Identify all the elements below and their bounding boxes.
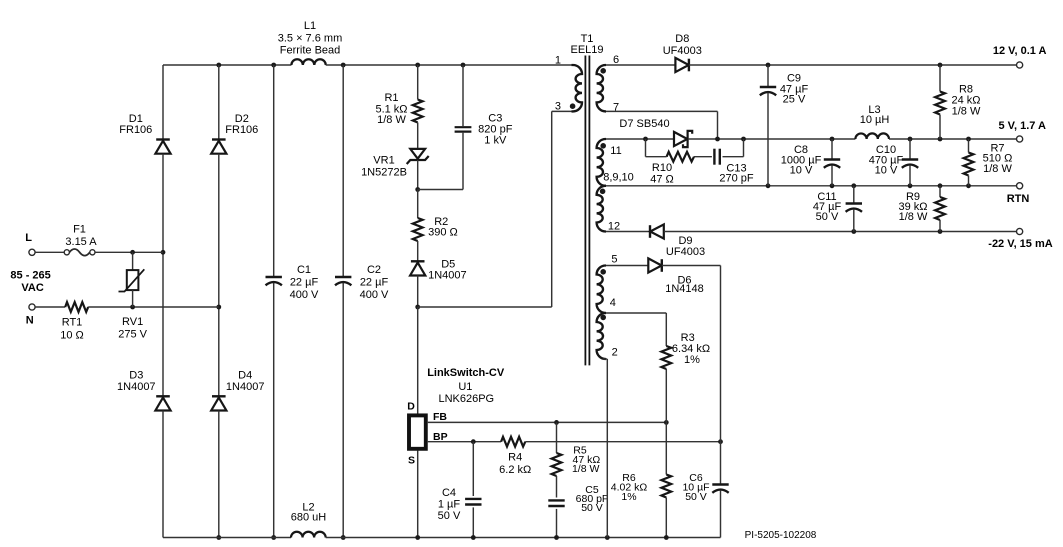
wire FB row bbox=[428, 421, 667, 423]
svg-text:D: D bbox=[407, 401, 415, 413]
wire R5 to C5 bbox=[556, 476, 558, 498]
secondary phase dot pin 6 bbox=[600, 68, 606, 74]
wire top rail right segment to transformer pin 1 bbox=[326, 64, 572, 66]
wire C1 column upper bbox=[273, 65, 275, 277]
svg-text:22 µF: 22 µF bbox=[290, 277, 319, 289]
capacitor C4 1uF 50V bbox=[465, 499, 481, 505]
label T1 bbox=[570, 33, 603, 56]
wire C6 bottom lead bbox=[720, 490, 722, 537]
svg-text:1N4007: 1N4007 bbox=[428, 270, 467, 282]
svg-text:6.2 kΩ: 6.2 kΩ bbox=[499, 464, 531, 476]
pin label 1 bbox=[555, 54, 561, 66]
svg-text:RTN: RTN bbox=[1007, 193, 1030, 205]
label U1 bbox=[458, 381, 472, 393]
transformer secondary winding pins 5-4 bbox=[597, 266, 606, 314]
node junction RTN / C11 top bbox=[851, 183, 856, 188]
label C6 bbox=[682, 472, 709, 503]
svg-text:3.15 A: 3.15 A bbox=[65, 236, 97, 248]
capacitor C10 470uF 10V bbox=[902, 160, 918, 168]
node junction bottom rail / C2 column bbox=[341, 535, 346, 540]
svg-text:FR106: FR106 bbox=[119, 124, 152, 136]
IC U1 LNK626PG LinkSwitch-CV body bbox=[409, 415, 426, 448]
svg-text:UF4003: UF4003 bbox=[666, 246, 705, 258]
svg-text:270 pF: 270 pF bbox=[719, 173, 754, 185]
capacitor C5 680pF 50V bbox=[548, 500, 564, 506]
label 5V output bbox=[999, 120, 1047, 132]
wire C1 column lower bbox=[273, 283, 275, 538]
inductor L3 10uH bbox=[855, 133, 889, 139]
terminal N input circle bbox=[29, 304, 35, 310]
wire left column lower (D3 to bottom rail) bbox=[162, 411, 164, 538]
label RT1 bbox=[60, 316, 84, 341]
wire C3 top lead bbox=[462, 65, 464, 126]
wire R2 to D5 bbox=[417, 241, 419, 261]
svg-text:2: 2 bbox=[612, 347, 618, 359]
wire drain node down to U1 drain bbox=[417, 307, 419, 414]
svg-text:U1: U1 bbox=[458, 381, 472, 393]
wire R6 top lead bbox=[665, 422, 667, 474]
label 8,9,10 bbox=[603, 172, 634, 184]
node junction L input / left column bbox=[161, 250, 166, 255]
node junction N row / RV1 bbox=[130, 305, 135, 310]
diode D5 1N4007 bbox=[410, 261, 425, 275]
transformer secondary winding pins 11-8,9,10 bbox=[597, 139, 606, 186]
svg-text:50 V: 50 V bbox=[581, 502, 603, 514]
transformer secondary winding pins 6-7 bbox=[597, 65, 606, 111]
wire top rail left segment (L1 input side) bbox=[163, 64, 291, 66]
wire R6 bottom lead bbox=[665, 498, 667, 538]
wire BP row right of R4 bbox=[525, 441, 720, 443]
node junction 5V rail / pin7 wire bbox=[715, 137, 720, 142]
svg-text:1N4007: 1N4007 bbox=[226, 381, 265, 393]
wire 5V rail pin 11 to snubber node bbox=[606, 138, 674, 140]
wire pin 7 down to 5V rail bbox=[717, 111, 719, 139]
wire C4 bottom lead bbox=[472, 507, 474, 537]
diode D4 1N4007 bbox=[211, 396, 226, 410]
wire RTN rail bbox=[606, 185, 1017, 187]
wire pin 2 column bbox=[603, 359, 607, 538]
node junction top rail / C2 column bbox=[341, 63, 346, 68]
thermistor RT1 10 ohm bbox=[65, 302, 88, 312]
wire RT1 to D2 column bbox=[88, 306, 219, 308]
diode D8 UF4003 bbox=[675, 58, 689, 72]
node junction 5V rail / C10 bbox=[908, 137, 913, 142]
svg-text:12: 12 bbox=[608, 220, 620, 232]
wire C9 top lead bbox=[767, 65, 769, 87]
svg-text:1 µF: 1 µF bbox=[438, 498, 461, 510]
wire C13 riser up to 5V rail bbox=[743, 139, 745, 157]
node junction RTN / R9 top bbox=[938, 183, 943, 188]
svg-text:680 uH: 680 uH bbox=[291, 511, 327, 523]
wire D5 to drain node bbox=[417, 276, 419, 308]
label R6 bbox=[611, 472, 648, 503]
pin label S bbox=[408, 454, 415, 466]
svg-text:EEL19: EEL19 bbox=[570, 44, 603, 56]
svg-text:D3: D3 bbox=[129, 369, 143, 381]
svg-text:S: S bbox=[408, 454, 415, 466]
wire R3 top lead bbox=[665, 313, 667, 346]
wire N to RT1 bbox=[35, 306, 65, 308]
transformer secondary winding pins 8,9,10-12 bbox=[597, 186, 606, 232]
node junction bottom rail / C4 bbox=[471, 535, 476, 540]
wire 12V rail D8 to terminal bbox=[689, 64, 1017, 66]
svg-text:10 V: 10 V bbox=[875, 164, 898, 176]
wire left column upper (top rail to D1) bbox=[162, 65, 164, 140]
resistor R6 4.02k bbox=[661, 475, 671, 498]
svg-text:12 V, 0.1 A: 12 V, 0.1 A bbox=[993, 45, 1047, 57]
wire C5 bottom lead bbox=[556, 509, 558, 538]
svg-text:1/8 W: 1/8 W bbox=[952, 106, 981, 118]
label VR1 bbox=[361, 154, 407, 178]
capacitor C8 1000uF 10V bbox=[824, 160, 840, 168]
node junction L row / RV1 bbox=[130, 250, 135, 255]
svg-text:3.5 × 7.6 mm: 3.5 × 7.6 mm bbox=[278, 33, 343, 45]
terminal L input circle bbox=[29, 249, 35, 255]
wire BP row left of R4 bbox=[428, 441, 501, 443]
resistor R7 510 ohm bbox=[964, 153, 974, 176]
svg-text:FB: FB bbox=[433, 411, 447, 423]
resistor R5 47k bbox=[552, 453, 562, 476]
pin label 4 bbox=[610, 297, 616, 309]
node junction -22V rail / C11 bottom bbox=[851, 229, 856, 234]
svg-text:Ferrite Bead: Ferrite Bead bbox=[280, 44, 341, 56]
svg-text:VR1: VR1 bbox=[373, 154, 394, 166]
wire R7 top lead bbox=[968, 139, 970, 153]
wire snubber branch down bbox=[645, 139, 647, 157]
wire C2 column lower bbox=[342, 283, 344, 538]
resistor R10 47 ohm bbox=[667, 152, 694, 162]
wire snubber to R10 bbox=[646, 156, 667, 158]
label D5 bbox=[428, 259, 467, 282]
svg-text:10 V: 10 V bbox=[790, 164, 813, 176]
label R7 bbox=[983, 143, 1013, 175]
wire bottom rail left segment bbox=[163, 537, 291, 539]
pin label 12 bbox=[608, 220, 620, 232]
label R9 bbox=[898, 191, 927, 223]
node junction BP / C4 bbox=[471, 439, 476, 444]
node junction top rail / R1 clamp column bbox=[415, 63, 420, 68]
wire drain link horizontal bbox=[418, 306, 552, 308]
wire R9 bottom lead bbox=[939, 220, 941, 232]
svg-text:6.34 kΩ: 6.34 kΩ bbox=[672, 343, 710, 355]
svg-text:PI-5205-102208: PI-5205-102208 bbox=[745, 530, 817, 541]
secondary phase dot pin 11 bbox=[600, 143, 606, 149]
svg-text:47 Ω: 47 Ω bbox=[650, 174, 674, 186]
node junction 5V rail / C8 bbox=[830, 137, 835, 142]
capacitor C9 47uF 25V bbox=[760, 87, 776, 95]
wire C3 to clamp node bbox=[418, 189, 463, 191]
svg-text:L1: L1 bbox=[304, 20, 316, 32]
diode D1 FR106 bbox=[155, 140, 170, 154]
svg-text:R10: R10 bbox=[652, 162, 672, 174]
svg-text:C2: C2 bbox=[367, 264, 381, 276]
wire L to fuse bbox=[35, 251, 64, 253]
node junction top rail / D2 column bbox=[216, 63, 221, 68]
wire R10 to C13 bbox=[694, 156, 712, 158]
svg-text:VAC: VAC bbox=[21, 282, 43, 294]
label L bbox=[25, 232, 32, 244]
label F1 bbox=[65, 224, 97, 249]
label D6 bbox=[665, 275, 704, 296]
resistor R2 390 bbox=[413, 218, 423, 241]
label C5 bbox=[576, 484, 609, 514]
svg-text:5 V, 1.7 A: 5 V, 1.7 A bbox=[999, 120, 1047, 132]
wire D2 column middle (D2 to D4) bbox=[218, 154, 220, 397]
transformer T1 core bbox=[585, 56, 589, 366]
wire R3 bottom lead to FB bbox=[665, 369, 667, 422]
label RTN output bbox=[1007, 193, 1030, 205]
capacitor C1 22uF 400V bbox=[266, 277, 282, 285]
wire pin 5 to D6 bbox=[606, 265, 648, 267]
svg-text:11: 11 bbox=[610, 145, 621, 157]
label C11 bbox=[813, 191, 842, 223]
svg-text:1: 1 bbox=[555, 54, 561, 66]
node junction 5V rail / R7 top bbox=[966, 137, 971, 142]
transformer secondary winding pins 4-2 bbox=[597, 313, 606, 359]
label D1 bbox=[119, 113, 152, 136]
svg-text:C4: C4 bbox=[442, 487, 456, 499]
pin label 6 bbox=[613, 54, 619, 66]
node junction top rail / C1 column bbox=[271, 63, 276, 68]
svg-text:N: N bbox=[26, 315, 34, 327]
node junction bottom rail / C5 bbox=[554, 535, 559, 540]
svg-text:3: 3 bbox=[555, 101, 561, 113]
resistor R4 6.2k bbox=[501, 437, 525, 447]
svg-text:D7 SB540: D7 SB540 bbox=[619, 118, 669, 130]
node junction RTN / C9 bottom bbox=[766, 183, 771, 188]
svg-text:F1: F1 bbox=[73, 224, 86, 236]
svg-text:RV1: RV1 bbox=[122, 316, 143, 328]
wire D2 column lower (D4 to bottom rail) bbox=[218, 411, 220, 538]
label R1 bbox=[375, 92, 407, 126]
svg-text:D4: D4 bbox=[238, 369, 252, 381]
svg-text:R4: R4 bbox=[508, 452, 522, 464]
svg-text:10 µH: 10 µH bbox=[860, 114, 890, 126]
label D2 bbox=[225, 113, 258, 136]
capacitor C11 47uF 50V bbox=[846, 204, 862, 212]
svg-text:50 V: 50 V bbox=[816, 211, 839, 223]
node junction BP row / D6-C6 column bbox=[718, 439, 723, 444]
svg-text:400 V: 400 V bbox=[290, 289, 319, 301]
node junction RTN / R7 bottom bbox=[966, 183, 971, 188]
svg-text:1N5272B: 1N5272B bbox=[361, 166, 407, 178]
wire C9 bottom lead to RTN bbox=[767, 93, 769, 186]
wire C11 top lead bbox=[853, 186, 855, 204]
terminal RTN output bbox=[1017, 183, 1023, 189]
label D8 bbox=[663, 33, 702, 57]
svg-text:LNK626PG: LNK626PG bbox=[438, 393, 494, 405]
label D4 bbox=[226, 369, 265, 393]
wire C10 top lead bbox=[909, 139, 911, 160]
wire 5V rail L3 to terminal bbox=[889, 138, 1017, 140]
svg-text:400 V: 400 V bbox=[360, 289, 389, 301]
wire C13 to riser bbox=[723, 156, 744, 158]
svg-text:-22 V, 15 mA: -22 V, 15 mA bbox=[988, 238, 1052, 250]
wire fuse to left column bbox=[95, 251, 163, 253]
capacitor C6 10uF 50V bbox=[712, 485, 728, 493]
label 85-265 VAC bbox=[10, 269, 50, 294]
resistor R1 5.1k bbox=[413, 100, 423, 123]
capacitor C3 820pF 1kV bbox=[455, 127, 472, 131]
svg-text:1 kV: 1 kV bbox=[484, 134, 507, 146]
pin label 11 bbox=[610, 145, 621, 157]
svg-text:5: 5 bbox=[611, 254, 617, 266]
svg-text:D9: D9 bbox=[678, 235, 692, 247]
wire bias column BP to C6 bbox=[720, 442, 722, 485]
wire left column middle (D1 to D3) bbox=[162, 154, 164, 397]
node junction 12V rail / R8 bbox=[938, 63, 943, 68]
pin label FB bbox=[433, 411, 447, 423]
wire C10 bottom lead bbox=[909, 165, 911, 186]
diode D6 1N4148 bbox=[648, 258, 662, 272]
svg-text:4: 4 bbox=[610, 297, 616, 309]
label D9 bbox=[666, 235, 705, 258]
label LNK626PG bbox=[438, 393, 494, 405]
svg-text:50 V: 50 V bbox=[685, 491, 707, 503]
varistor RV1 275V bbox=[119, 252, 145, 307]
resistor R8 24k bbox=[935, 92, 945, 115]
wire C8 top lead bbox=[831, 139, 833, 160]
svg-text:1/8 W: 1/8 W bbox=[377, 114, 406, 126]
svg-text:50 V: 50 V bbox=[438, 510, 461, 522]
node junction bottom rail / R6 bbox=[664, 535, 669, 540]
label -22V output bbox=[988, 238, 1052, 250]
wire U1 source to bottom rail bbox=[417, 451, 419, 538]
pin label BP bbox=[433, 431, 448, 443]
label 12V output bbox=[993, 45, 1047, 57]
node junction bottom rail / C1 column bbox=[271, 535, 276, 540]
label D7 SB540 bbox=[619, 118, 669, 130]
svg-text:275 V: 275 V bbox=[118, 329, 147, 341]
schottky diode D7 SB540 bbox=[674, 131, 692, 147]
svg-text:25 V: 25 V bbox=[783, 94, 806, 106]
resistor R9 39k bbox=[935, 197, 945, 220]
wire pin 4 to R3 column bbox=[606, 312, 666, 314]
wire R8 top lead bbox=[939, 65, 941, 92]
label L3 bbox=[860, 104, 890, 126]
diode D2 FR106 bbox=[211, 140, 226, 154]
node drain junction bbox=[415, 305, 420, 310]
svg-text:L: L bbox=[25, 232, 32, 244]
inductor L1 ferrite bead coil bbox=[291, 59, 325, 65]
node junction 5V rail / R8 bottom bbox=[938, 137, 943, 142]
svg-text:UF4003: UF4003 bbox=[663, 45, 702, 57]
svg-text:1%: 1% bbox=[621, 491, 636, 503]
svg-text:1N4148: 1N4148 bbox=[665, 283, 704, 295]
wire C2 column upper bbox=[342, 65, 344, 277]
svg-text:D8: D8 bbox=[675, 33, 689, 45]
label PI-5205-102208 bbox=[745, 530, 817, 541]
node junction bottom rail / pin2 column bbox=[605, 535, 610, 540]
wire R7 bottom lead bbox=[968, 176, 970, 186]
transformer primary winding pins 1-3 bbox=[572, 65, 583, 111]
node junction RTN / C10 bottom bbox=[908, 183, 913, 188]
svg-text:LinkSwitch-CV: LinkSwitch-CV bbox=[427, 367, 505, 379]
svg-text:FR106: FR106 bbox=[225, 124, 258, 136]
node junction FB / R3-R6 bbox=[664, 420, 669, 425]
wire D2 column upper (top rail to D2) bbox=[218, 65, 220, 140]
node clamp junction R1-VR1 / C3 / R2 bbox=[415, 187, 420, 192]
capacitor C2 22uF 400V bbox=[335, 277, 351, 285]
wire -22V rail pin12 to D9 bbox=[606, 231, 650, 233]
wire R8 bottom lead bbox=[939, 115, 941, 140]
diode D9 UF4003 bbox=[650, 224, 664, 238]
label LinkSwitch-CV bbox=[427, 367, 505, 379]
wire C8 bottom lead bbox=[831, 165, 833, 186]
label R8 bbox=[951, 84, 980, 118]
terminal 12V output bbox=[1017, 62, 1023, 68]
fuse F1 3.15A bbox=[64, 249, 95, 256]
wire VR1 to clamp node bbox=[417, 160, 419, 190]
terminal 5V output bbox=[1017, 136, 1023, 142]
node junction 5V rail / C13 riser bbox=[741, 137, 746, 142]
label R4 bbox=[499, 452, 531, 477]
zener diode VR1 1N5272B bbox=[407, 149, 429, 164]
svg-text:1%: 1% bbox=[684, 354, 700, 366]
label C8 bbox=[781, 144, 822, 176]
node junction 5V rail / snubber branch bbox=[643, 137, 648, 142]
capacitor C13 270pF bbox=[714, 149, 719, 165]
wire R5 top lead bbox=[556, 422, 558, 453]
wire D6 to bias column bbox=[662, 265, 721, 267]
node junction 12V rail / C9 bbox=[766, 63, 771, 68]
svg-text:RT1: RT1 bbox=[62, 316, 83, 328]
label C3 bbox=[478, 113, 513, 147]
label C4 bbox=[438, 487, 461, 522]
svg-text:1/8 W: 1/8 W bbox=[899, 211, 928, 223]
node junction FB / R5 bbox=[554, 420, 559, 425]
primary phase dot pin 3 bbox=[570, 103, 576, 109]
label R3 bbox=[672, 332, 710, 366]
diode D3 1N4007 bbox=[155, 396, 170, 410]
svg-text:C1: C1 bbox=[297, 264, 311, 276]
node junction top rail / C3 column bbox=[461, 63, 466, 68]
secondary phase dot below 8,9,10 bbox=[600, 189, 606, 195]
wire R9 top lead bbox=[939, 186, 941, 197]
terminal -22V output bbox=[1017, 228, 1023, 234]
label C9 bbox=[780, 73, 809, 106]
pin label D bbox=[407, 401, 415, 413]
label R10 bbox=[650, 162, 674, 186]
inductor L2 680uH bbox=[291, 532, 326, 538]
wire C3 bottom lead bbox=[462, 133, 464, 190]
svg-text:R1: R1 bbox=[384, 92, 398, 104]
wire R1 column top lead bbox=[417, 65, 419, 100]
pin label 2 bbox=[612, 347, 618, 359]
wire C4 top lead bbox=[472, 442, 474, 496]
pin label 3 bbox=[555, 101, 561, 113]
svg-text:22 µF: 22 µF bbox=[360, 277, 389, 289]
secondary phase dot below pin 4 bbox=[600, 315, 606, 321]
label C2 bbox=[360, 264, 389, 301]
node junction bottom rail / D4 column bbox=[216, 535, 221, 540]
label L1 bbox=[278, 20, 343, 56]
label R5 bbox=[572, 445, 600, 475]
svg-text:1/8 W: 1/8 W bbox=[572, 463, 600, 475]
wire C11 bottom lead bbox=[853, 209, 855, 231]
label L2 bbox=[291, 502, 327, 524]
label C10 bbox=[869, 144, 904, 176]
wire pin 3 stub bbox=[552, 110, 575, 112]
svg-text:390 Ω: 390 Ω bbox=[428, 226, 458, 238]
svg-text:85 - 265: 85 - 265 bbox=[10, 269, 50, 281]
wire drain link vertical to pin 3 bbox=[551, 111, 553, 307]
wire -22V rail D9 to terminal bbox=[664, 231, 1017, 233]
node junction bottom rail / U1 source bbox=[415, 535, 420, 540]
svg-text:10 Ω: 10 Ω bbox=[60, 330, 84, 342]
secondary phase dot pin 5 bbox=[600, 269, 606, 275]
label N bbox=[26, 315, 34, 327]
